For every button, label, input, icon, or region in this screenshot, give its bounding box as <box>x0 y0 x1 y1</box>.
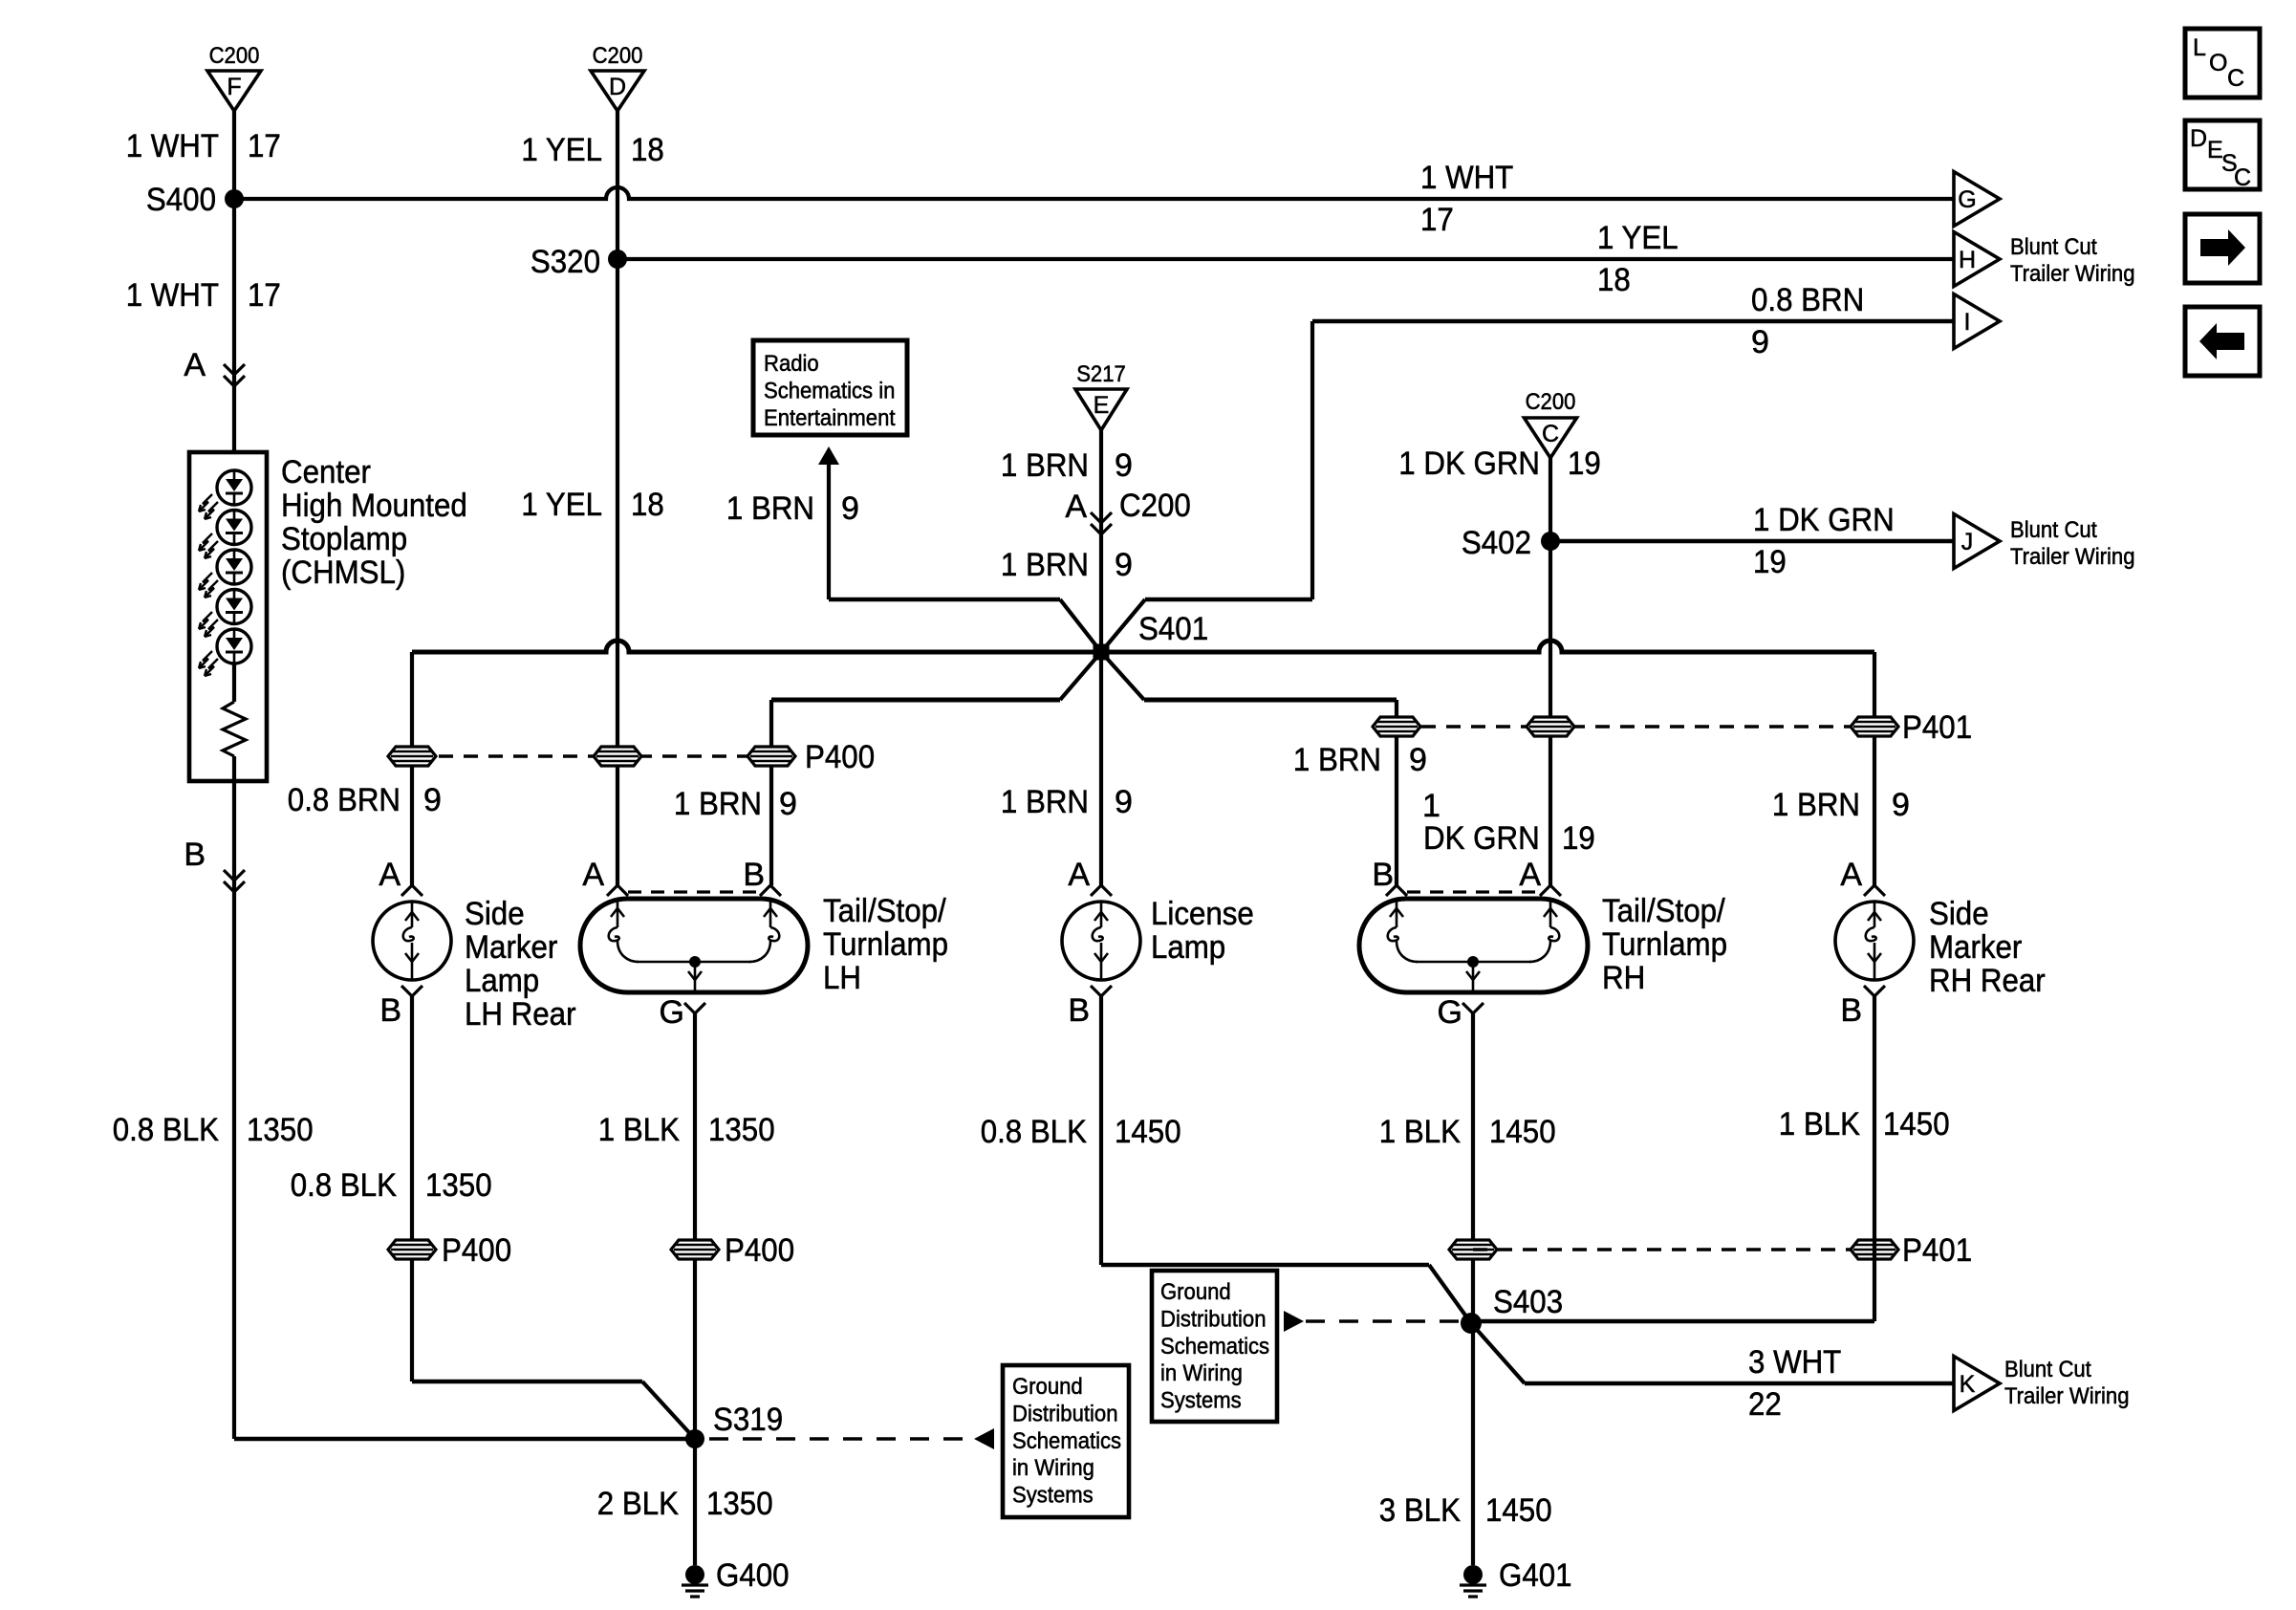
svg-text:S400: S400 <box>146 182 216 218</box>
svg-text:S217: S217 <box>1076 361 1126 387</box>
svg-text:1 DK GRN: 1 DK GRN <box>1398 446 1540 482</box>
svg-text:Schematics: Schematics <box>1160 1334 1269 1360</box>
svg-text:2 BLK: 2 BLK <box>597 1486 679 1522</box>
svg-text:S401: S401 <box>1138 611 1208 647</box>
svg-text:(CHMSL): (CHMSL) <box>281 555 405 591</box>
svg-text:P401: P401 <box>1902 709 1972 746</box>
svg-text:D: D <box>609 74 626 100</box>
svg-text:Distribution: Distribution <box>1160 1306 1267 1332</box>
svg-text:1 WHT: 1 WHT <box>1420 160 1513 196</box>
svg-text:P400: P400 <box>725 1232 794 1269</box>
svg-text:C200: C200 <box>1119 488 1191 524</box>
svg-text:C: C <box>1542 421 1559 447</box>
svg-text:1450: 1450 <box>1883 1106 1950 1142</box>
svg-text:Side: Side <box>1929 896 1989 932</box>
svg-text:Center: Center <box>281 454 371 490</box>
svg-text:O: O <box>2209 50 2227 76</box>
svg-text:1: 1 <box>1422 788 1440 824</box>
svg-text:G: G <box>1958 186 1976 213</box>
svg-text:1 DK GRN: 1 DK GRN <box>1753 502 1895 538</box>
svg-text:C200: C200 <box>593 43 643 69</box>
svg-text:19: 19 <box>1568 446 1601 482</box>
svg-text:1 BRN: 1 BRN <box>1772 787 1860 823</box>
svg-text:Ground: Ground <box>1160 1279 1231 1305</box>
svg-text:Turnlamp: Turnlamp <box>823 926 948 963</box>
svg-text:Lamp: Lamp <box>465 963 539 999</box>
svg-text:in Wiring: in Wiring <box>1012 1455 1094 1481</box>
svg-text:C: C <box>2234 164 2251 191</box>
svg-text:9: 9 <box>779 786 797 822</box>
svg-text:K: K <box>1960 1371 1976 1398</box>
svg-text:G400: G400 <box>716 1557 790 1594</box>
svg-text:3 BLK: 3 BLK <box>1379 1492 1461 1529</box>
svg-text:J: J <box>1961 529 1974 555</box>
svg-text:1 WHT: 1 WHT <box>126 277 219 314</box>
svg-text:9: 9 <box>1115 784 1133 820</box>
svg-text:17: 17 <box>248 128 281 164</box>
svg-text:1 YEL: 1 YEL <box>521 132 602 168</box>
svg-text:Radio: Radio <box>764 351 819 377</box>
svg-text:E: E <box>1094 392 1110 419</box>
svg-text:Distribution: Distribution <box>1012 1401 1118 1426</box>
svg-text:0.8 BLK: 0.8 BLK <box>291 1167 398 1204</box>
svg-text:Schematics in: Schematics in <box>764 378 895 403</box>
svg-text:Turnlamp: Turnlamp <box>1602 926 1727 963</box>
svg-text:C: C <box>2227 65 2244 92</box>
svg-text:1350: 1350 <box>425 1167 492 1204</box>
svg-text:RH Rear: RH Rear <box>1929 963 2046 999</box>
svg-text:9: 9 <box>1751 324 1769 360</box>
svg-text:Trailer Wiring: Trailer Wiring <box>2010 544 2135 570</box>
svg-text:1 WHT: 1 WHT <box>126 128 219 164</box>
svg-text:B: B <box>1068 992 1090 1029</box>
svg-text:1350: 1350 <box>708 1112 775 1148</box>
svg-text:C200: C200 <box>209 43 260 69</box>
svg-text:B: B <box>743 857 765 893</box>
svg-text:22: 22 <box>1748 1386 1782 1423</box>
svg-text:1 BLK: 1 BLK <box>598 1112 680 1148</box>
svg-text:DK GRN: DK GRN <box>1423 820 1540 857</box>
svg-text:L: L <box>2193 34 2206 61</box>
svg-text:1350: 1350 <box>247 1112 314 1148</box>
svg-text:License: License <box>1151 896 1254 932</box>
svg-text:D: D <box>2190 125 2207 152</box>
svg-text:19: 19 <box>1562 820 1595 857</box>
svg-text:Blunt Cut: Blunt Cut <box>2010 234 2097 260</box>
svg-text:1 BLK: 1 BLK <box>1379 1114 1461 1150</box>
svg-text:Tail/Stop/: Tail/Stop/ <box>1602 893 1725 929</box>
svg-text:1450: 1450 <box>1489 1114 1556 1150</box>
svg-text:Marker: Marker <box>465 929 557 966</box>
svg-text:0.8 BLK: 0.8 BLK <box>113 1112 220 1148</box>
svg-text:G: G <box>660 994 684 1031</box>
svg-text:F: F <box>227 74 241 100</box>
svg-text:A: A <box>1840 857 1862 893</box>
svg-text:9: 9 <box>1115 547 1133 583</box>
svg-text:P400: P400 <box>442 1232 511 1269</box>
svg-text:1 YEL: 1 YEL <box>521 487 602 523</box>
svg-text:18: 18 <box>631 132 664 168</box>
svg-text:18: 18 <box>631 487 664 523</box>
svg-text:1 BRN: 1 BRN <box>726 490 814 527</box>
svg-text:H: H <box>1959 247 1976 273</box>
svg-text:A: A <box>1068 857 1090 893</box>
svg-text:Marker: Marker <box>1929 929 2022 966</box>
svg-text:P400: P400 <box>805 739 875 775</box>
svg-text:G401: G401 <box>1499 1557 1572 1594</box>
svg-text:1350: 1350 <box>706 1486 773 1522</box>
svg-text:High Mounted: High Mounted <box>281 488 467 524</box>
svg-text:9: 9 <box>1409 742 1427 778</box>
svg-text:A: A <box>1065 489 1087 525</box>
svg-text:A: A <box>582 857 604 893</box>
svg-text:G: G <box>1438 994 1462 1031</box>
svg-text:RH: RH <box>1602 960 1645 996</box>
svg-text:B: B <box>379 992 401 1029</box>
svg-text:I: I <box>1964 309 1971 336</box>
svg-text:9: 9 <box>1892 787 1910 823</box>
svg-text:B: B <box>1372 857 1394 893</box>
svg-text:Blunt Cut: Blunt Cut <box>2004 1357 2091 1382</box>
svg-text:Systems: Systems <box>1012 1483 1094 1509</box>
svg-text:1 BRN: 1 BRN <box>1001 784 1089 820</box>
svg-text:9: 9 <box>841 490 859 527</box>
svg-text:B: B <box>1840 992 1862 1029</box>
svg-text:B: B <box>184 837 206 873</box>
svg-text:9: 9 <box>1115 447 1133 484</box>
svg-text:Schematics: Schematics <box>1012 1428 1121 1454</box>
svg-text:1 BLK: 1 BLK <box>1779 1106 1860 1142</box>
svg-text:Trailer Wiring: Trailer Wiring <box>2010 261 2135 287</box>
svg-text:A: A <box>1519 857 1541 893</box>
svg-text:Systems: Systems <box>1160 1388 1242 1414</box>
svg-text:Ground: Ground <box>1012 1374 1083 1400</box>
svg-text:S402: S402 <box>1462 525 1531 561</box>
svg-text:1 YEL: 1 YEL <box>1597 220 1679 256</box>
svg-text:Tail/Stop/: Tail/Stop/ <box>823 893 946 929</box>
svg-text:P401: P401 <box>1902 1232 1972 1269</box>
svg-text:Entertainment: Entertainment <box>764 405 896 431</box>
svg-text:Stoplamp: Stoplamp <box>281 521 407 557</box>
svg-text:17: 17 <box>248 277 281 314</box>
svg-text:C200: C200 <box>1526 389 1576 415</box>
svg-text:S319: S319 <box>713 1402 783 1438</box>
svg-text:S320: S320 <box>531 244 600 280</box>
svg-text:0.8 BRN: 0.8 BRN <box>1751 282 1864 318</box>
svg-text:Side: Side <box>465 896 525 932</box>
svg-text:0.8 BLK: 0.8 BLK <box>981 1114 1088 1150</box>
svg-text:1450: 1450 <box>1115 1114 1181 1150</box>
svg-text:A: A <box>184 347 206 383</box>
svg-text:LH: LH <box>823 960 861 996</box>
svg-text:1 BRN: 1 BRN <box>1001 447 1089 484</box>
svg-text:17: 17 <box>1420 202 1454 238</box>
svg-text:1 BRN: 1 BRN <box>1293 742 1381 778</box>
svg-text:Trailer Wiring: Trailer Wiring <box>2004 1383 2130 1409</box>
svg-text:3 WHT: 3 WHT <box>1748 1344 1841 1381</box>
svg-text:9: 9 <box>423 782 442 818</box>
svg-text:18: 18 <box>1597 262 1631 298</box>
svg-text:LH Rear: LH Rear <box>465 996 576 1033</box>
svg-text:1 BRN: 1 BRN <box>1001 547 1089 583</box>
svg-text:1 BRN: 1 BRN <box>674 786 762 822</box>
svg-text:0.8 BRN: 0.8 BRN <box>288 782 401 818</box>
svg-text:S403: S403 <box>1493 1284 1563 1320</box>
svg-text:Lamp: Lamp <box>1151 929 1225 966</box>
svg-text:1450: 1450 <box>1485 1492 1552 1529</box>
svg-text:Blunt Cut: Blunt Cut <box>2010 517 2097 543</box>
svg-text:in Wiring: in Wiring <box>1160 1360 1243 1386</box>
svg-text:A: A <box>379 857 401 893</box>
svg-text:19: 19 <box>1753 544 1787 580</box>
